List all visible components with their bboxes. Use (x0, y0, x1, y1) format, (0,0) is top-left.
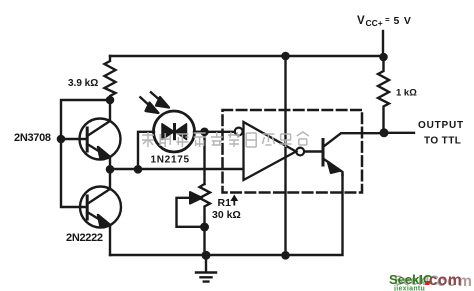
wire ground stub (205, 255, 207, 272)
svg-text:V: V (357, 15, 365, 27)
transistor Q1 base bar (86, 128, 89, 151)
svg-text:3.9 kΩ: 3.9 kΩ (68, 78, 98, 89)
transistor Q1 emitter (87, 144, 110, 169)
dashed box U1 (223, 110, 363, 193)
wire to inverter input (204, 131, 235, 133)
svg-text:jiexiantu: jiexiantu (393, 286, 425, 291)
wire top rail (110, 55, 383, 57)
junction node VCC (379, 53, 388, 62)
svg-text:=: = (385, 16, 390, 25)
junction node Q1 emitter (106, 165, 115, 174)
transistor Q2 emitter arrowhead (98, 215, 110, 227)
svg-text:2N2222: 2N2222 (66, 232, 103, 244)
junction node top rail (281, 52, 290, 61)
logo red dot (426, 281, 430, 285)
svg-text:1N2175: 1N2175 (151, 155, 190, 166)
svg-text:OUTPUT: OUTPUT (418, 120, 464, 131)
wire photodiode right lead (194, 131, 204, 133)
svg-text:TO TTL: TO TTL (424, 136, 461, 147)
wire left branch rail (61, 100, 110, 207)
transistor Q1 emitter arrowhead (98, 147, 110, 159)
wire output (384, 132, 414, 134)
wire photodiode to R1 (203, 132, 205, 184)
transistor Q3 base bar (322, 140, 325, 166)
svg-text:1 kΩ: 1 kΩ (396, 88, 417, 99)
op-amp U1 input bubble (235, 128, 243, 136)
svg-text:.com: .com (424, 272, 462, 289)
resistor 3.9k zigzag (105, 56, 116, 100)
svg-text:2N3708: 2N3708 (14, 132, 51, 144)
photodiode D1 circle (154, 111, 195, 152)
transistor Q2 2N2222 emitter lead (109, 226, 111, 255)
ground symbol (196, 273, 216, 282)
transistor Q2 2N2222 circle (80, 187, 121, 228)
op-amp U1 inverter triangle (244, 122, 297, 180)
svg-text:5 V: 5 V (394, 15, 412, 27)
transistor Q2 collector (87, 169, 110, 204)
svg-text:R1: R1 (218, 197, 232, 209)
transistor Q2 emitter (87, 212, 110, 226)
wire base tap Q1 (61, 138, 87, 140)
light arrow 1 (140, 97, 159, 114)
op-amp U1 output bubble (296, 148, 304, 156)
transistor Q3 emitter arrowhead (328, 162, 340, 173)
transistor Q1 collector (87, 100, 110, 136)
junction node 3.9k bottom (106, 96, 115, 105)
svg-text:30 kΩ: 30 kΩ (212, 209, 241, 221)
transistor Q2 base bar (86, 196, 89, 219)
junction node feed-through bottom (281, 251, 290, 260)
transistor Q3 collector (323, 133, 384, 147)
junction node photodiode left (134, 165, 143, 174)
wire vertical feed-through (284, 56, 286, 255)
light arrow 2 (150, 92, 169, 108)
junction node Q1 base (57, 135, 66, 144)
photodiode D1 left triangle (162, 124, 174, 140)
potentiometer R1 wiper arrowhead (190, 192, 202, 204)
wire R1 to ground rail (203, 227, 205, 255)
wire VCC stub (382, 31, 384, 57)
photodiode D1 right triangle (175, 124, 187, 140)
transistor Q1 2N3708 circle (80, 119, 121, 160)
watermark hanzi row (142, 132, 309, 147)
resistor 1k zigzag (378, 57, 389, 133)
junction node photodiode right (200, 128, 209, 137)
potentiometer R1 wiper (177, 198, 205, 227)
junction node R1 wiper bottom (200, 223, 209, 232)
potentiometer R1 zigzag (200, 184, 211, 227)
wire inverter output to Q3 base (304, 150, 323, 152)
wire photodiode left lead (138, 132, 154, 169)
wire bottom rail (110, 175, 343, 255)
transistor Q3 emitter (323, 159, 343, 176)
junction node ground (202, 251, 211, 260)
junction node output (380, 128, 389, 137)
photodiode D1 center bar (173, 123, 176, 140)
svg-text:CC+: CC+ (366, 18, 383, 28)
wire mid line (110, 168, 243, 170)
